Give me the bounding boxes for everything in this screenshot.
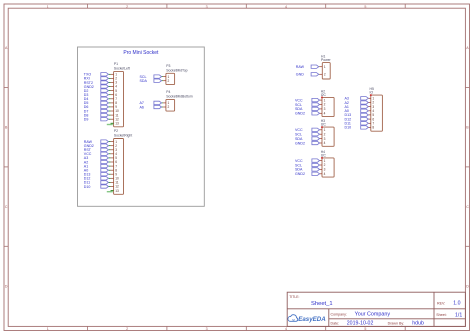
wire net TXO to P1 pin 1 [108, 73, 110, 75]
pin 1 of H2 [319, 98, 326, 102]
net flag D12 [345, 117, 369, 121]
net flag GND2 [84, 85, 109, 89]
wire net D10 to H5 pin 8 [367, 126, 370, 128]
wire net D2 to P1 pin 5 [108, 90, 110, 92]
frame row letters A-D (right) [466, 46, 469, 288]
pin 2 of H2 [319, 103, 326, 107]
net flag D13 [345, 113, 369, 117]
frame column digits 1-5 (top) [47, 5, 367, 9]
svg-text:A6: A6 [140, 105, 144, 109]
wire net D6 to P1 pin 9 [108, 106, 110, 108]
wire net GND2 to H4 pin 4 [318, 173, 321, 175]
pin 2 of P4 [163, 105, 170, 109]
pin 11 of P2 [111, 181, 119, 185]
wire net D12 to H5 pin 6 [367, 118, 370, 120]
svg-text:Sheet_1: Sheet_1 [311, 301, 333, 307]
svg-text:C: C [5, 205, 8, 209]
svg-text:2: 2 [168, 105, 170, 109]
pin 7 of H5 [368, 121, 375, 125]
wire net D3 to P1 pin 6 [108, 94, 110, 96]
net flag RST [84, 148, 109, 152]
svg-text:Pro Mini Socket: Pro Mini Socket [123, 50, 159, 56]
svg-text:3: 3 [324, 168, 326, 172]
svg-text:VCC: VCC [295, 128, 303, 132]
pin 11 of P1 [111, 113, 119, 117]
svg-text:SocketLeft: SocketLeft [114, 66, 130, 70]
pin 6 of P2 [111, 160, 118, 164]
net flag D2 [84, 89, 109, 93]
net flag D3 [84, 93, 109, 97]
pin 4 of H5 [368, 109, 375, 113]
net flag A7 [140, 101, 162, 105]
wire net SDA to P3 pin 2 [162, 80, 163, 82]
svg-text:I2C: I2C [321, 154, 327, 158]
pin 4 of H4 [319, 172, 326, 176]
net flag A3 [345, 97, 369, 101]
wire net D11 to P2 pin 11 [108, 181, 110, 183]
svg-text:4: 4 [324, 172, 326, 176]
wire net SCL to H2 pin 2 [318, 104, 321, 106]
pin 1 of H4 [319, 159, 326, 163]
svg-text:P3: P3 [166, 64, 170, 68]
net flag VCC [295, 98, 320, 102]
frame column boundary ticks (top) [87, 4, 405, 8]
connector P3 (SocketMidTop) [166, 64, 188, 85]
net flag TXO [84, 73, 109, 77]
svg-text:Power: Power [321, 58, 331, 62]
svg-text:D9: D9 [84, 117, 89, 121]
net flag A1 [84, 164, 109, 168]
pin 4 of H3 [319, 141, 326, 145]
pin 1 of P3 [163, 75, 170, 79]
wire net D9 to P1 pin 12 [108, 118, 110, 120]
net flag D4 [84, 97, 109, 101]
wire net GND2 to H3 pin 4 [318, 142, 321, 144]
pin 2 of H5 [368, 101, 375, 105]
wire net RAW to P2 pin 1 [108, 141, 110, 143]
svg-text:3: 3 [324, 137, 326, 141]
net flag A3 [84, 156, 109, 160]
net flag D10 [84, 185, 109, 189]
pin 1 of H1 [319, 65, 326, 69]
wire net GND2 to H2 pin 4 [318, 112, 321, 114]
svg-text:2: 2 [126, 5, 128, 9]
wire net SDA to H3 pin 3 [318, 138, 321, 140]
pin 6 of P1 [111, 93, 118, 97]
net flag RAW [296, 65, 319, 69]
net flag D7 [84, 109, 109, 113]
svg-text:1: 1 [324, 128, 326, 132]
svg-text:TITLE:: TITLE: [289, 295, 299, 299]
svg-text:GND2: GND2 [295, 172, 305, 176]
svg-text:4: 4 [285, 327, 287, 331]
svg-text:3: 3 [324, 107, 326, 111]
wire net SCL to H4 pin 2 [318, 164, 321, 166]
pin-1 origin dot H4 [321, 157, 323, 159]
pin 3 of H3 [319, 137, 326, 141]
pin 9 of P1 [111, 105, 118, 109]
svg-text:D10: D10 [345, 126, 352, 130]
svg-text:C: C [466, 205, 469, 209]
pin 1 of P2 [111, 140, 118, 144]
net flag A0 [345, 109, 369, 113]
connector P1 (SocketLeft) [114, 62, 130, 127]
net flag GND [296, 73, 319, 77]
net flag D12 [84, 177, 109, 181]
net flag GND2 [295, 172, 320, 176]
svg-text:4: 4 [324, 141, 326, 145]
svg-text:REV:: REV: [437, 301, 445, 305]
frame column boundary ticks (bottom) [87, 326, 405, 330]
connector H1 (Power) [321, 55, 331, 79]
svg-text:Company:: Company: [331, 312, 347, 316]
net flag SCL [295, 103, 320, 107]
net flag SCL [140, 75, 162, 79]
svg-text:VCC: VCC [295, 98, 303, 102]
svg-text:2: 2 [324, 73, 326, 77]
pin 3 of P2 [111, 148, 118, 152]
svg-text:5: 5 [364, 5, 366, 9]
wire net VCC to H2 pin 1 [318, 99, 321, 101]
pin 1 of P4 [163, 101, 170, 105]
svg-text:EasyEDA: EasyEDA [298, 316, 326, 323]
connector H3 (I2C) [321, 119, 334, 146]
pin 12 of P2 [111, 185, 119, 189]
svg-text:IO: IO [370, 91, 374, 95]
wire net RAW to H1 pin 1 [318, 66, 321, 68]
wire stub (green) at P2 pin 13 [107, 191, 113, 193]
svg-text:1: 1 [324, 98, 326, 102]
net flag GND2 [295, 141, 320, 145]
net flag VCC [84, 152, 109, 156]
svg-text:P1: P1 [114, 62, 118, 66]
wire net A2 to H5 pin 2 [367, 102, 370, 104]
pin 3 of P1 [111, 81, 118, 85]
pin 1 of P1 [111, 73, 118, 77]
pin-1 origin dot H2 [321, 96, 323, 98]
svg-text:D: D [5, 285, 8, 289]
wire net RST2 to P1 pin 3 [108, 82, 110, 84]
pin 3 of H5 [368, 105, 375, 109]
wire net A1 to H5 pin 3 [367, 106, 370, 108]
svg-text:Date:: Date: [331, 321, 340, 325]
connector H2 (I2C) [321, 90, 334, 117]
svg-text:1: 1 [324, 159, 326, 163]
pin 3 of H2 [319, 107, 326, 111]
wire net RXI to P1 pin 2 [108, 77, 110, 79]
pin 3 of H4 [319, 168, 326, 172]
net flag A1 [345, 105, 369, 109]
pin 8 of P2 [111, 168, 118, 172]
wire net D12 to P2 pin 10 [108, 177, 110, 179]
svg-text:SDA: SDA [295, 137, 303, 141]
svg-text:SDA: SDA [295, 168, 303, 172]
pin 8 of P1 [111, 101, 118, 105]
pin 2 of H3 [319, 132, 326, 136]
pin 1 of H5 [368, 97, 375, 101]
pin 4 of H2 [319, 112, 326, 116]
net flag SCL [295, 163, 320, 167]
wire net D13 to H5 pin 5 [367, 114, 370, 116]
pin 6 of H5 [368, 117, 375, 121]
net flag D11 [345, 122, 369, 126]
svg-text:Sheet:: Sheet: [436, 313, 446, 317]
svg-text:5: 5 [364, 327, 366, 331]
group box Pro Mini Socket [78, 47, 205, 206]
pin 2 of P3 [163, 79, 170, 83]
pin 5 of P2 [111, 156, 118, 160]
net flag D6 [84, 105, 109, 109]
net flag D5 [84, 101, 109, 105]
svg-text:SDA: SDA [140, 79, 148, 83]
frame column digits 1-5 (bottom) [47, 327, 367, 331]
wire net A7 to P4 pin 1 [162, 102, 163, 104]
wire net SCL to P3 pin 1 [162, 76, 163, 78]
net flag VCC [295, 159, 320, 163]
svg-text:GND2: GND2 [295, 141, 305, 145]
net flag D9 [84, 117, 109, 121]
net flag A2 [345, 101, 369, 105]
svg-text:D10: D10 [84, 185, 91, 189]
svg-text:P4: P4 [166, 90, 170, 94]
svg-text:GND2: GND2 [295, 112, 305, 116]
svg-text:2: 2 [324, 103, 326, 107]
net flag A6 [140, 105, 162, 109]
pin-1 origin dot H3 [321, 126, 323, 128]
wire stub (green) at P1 pin 13 [107, 124, 113, 126]
wire net GND2 to P2 pin 2 [108, 145, 110, 147]
net flag VCC [295, 128, 320, 132]
pin 10 of P1 [111, 109, 119, 113]
pin 7 of P1 [111, 97, 118, 101]
frame row letters A-D (left) [5, 46, 8, 288]
svg-text:2: 2 [168, 79, 170, 83]
net flag D8 [84, 113, 109, 117]
wire net D11 to H5 pin 7 [367, 122, 370, 124]
net flag RST2 [84, 81, 109, 85]
svg-text:13: 13 [115, 121, 119, 125]
net flag RXI [84, 77, 109, 81]
svg-text:1.0: 1.0 [453, 301, 460, 307]
svg-text:SCL: SCL [295, 163, 302, 167]
svg-text:SDA: SDA [295, 107, 303, 111]
svg-text:2: 2 [324, 163, 326, 167]
connector P4 (SocketMidBottom) [166, 90, 193, 111]
svg-text:D: D [466, 285, 469, 289]
pin 2 of P1 [111, 77, 118, 81]
connector H4 (I2C) [321, 150, 334, 177]
net flag SDA [140, 79, 162, 83]
net flag SDA [295, 168, 320, 172]
wire net D13 to P2 pin 9 [108, 173, 110, 175]
pin 8 of H5 [368, 126, 375, 130]
svg-text:Drawn By:: Drawn By: [388, 321, 405, 325]
wire net A6 to P4 pin 2 [162, 106, 163, 108]
connector H5 (IO) [370, 87, 383, 131]
wire net D10 to P2 pin 12 [108, 186, 110, 188]
wire net SDA to H2 pin 3 [318, 108, 321, 110]
wire net A0 to P2 pin 8 [108, 169, 110, 171]
pin 13 of P1 [111, 121, 119, 125]
EasyEDA logo [288, 315, 326, 323]
svg-text:VCC: VCC [295, 159, 303, 163]
wire net D5 to P1 pin 8 [108, 102, 110, 104]
wire net GND to H1 pin 2 [318, 73, 321, 75]
net flag A0 [84, 168, 109, 172]
pin 4 of P1 [111, 85, 118, 89]
wire net D7 to P1 pin 10 [108, 110, 110, 112]
net flag D10 [345, 126, 369, 130]
frame row boundary ticks (right) [465, 87, 469, 246]
net flag SCL [295, 133, 320, 137]
wire net GND2 to P1 pin 4 [108, 86, 110, 88]
svg-text:SocketMidTop: SocketMidTop [166, 68, 187, 72]
wire net VCC to H3 pin 1 [318, 129, 321, 131]
pin 1 of H3 [319, 128, 326, 132]
svg-text:3: 3 [206, 327, 208, 331]
svg-text:3: 3 [206, 5, 208, 9]
svg-text:RAW: RAW [296, 65, 305, 69]
pin 2 of H4 [319, 163, 326, 167]
pin 10 of P2 [111, 177, 119, 181]
svg-text:I2C: I2C [321, 123, 327, 127]
svg-text:1: 1 [47, 327, 49, 331]
net flag SDA [295, 137, 320, 141]
svg-text:SCL: SCL [295, 103, 302, 107]
svg-text:GND: GND [296, 73, 304, 77]
svg-text:P2: P2 [114, 129, 118, 133]
title block frame [287, 292, 465, 326]
wire net A3 to P2 pin 5 [108, 157, 110, 159]
net flag GND2 [84, 144, 109, 148]
svg-text:2: 2 [126, 327, 128, 331]
svg-text:8: 8 [372, 126, 374, 130]
wire net A0 to H5 pin 4 [367, 110, 370, 112]
net flag GND2 [295, 112, 320, 116]
wire net A1 to P2 pin 7 [108, 165, 110, 167]
net flag RAW [84, 140, 109, 144]
wire net RST to P2 pin 3 [108, 149, 110, 151]
svg-text:4: 4 [324, 112, 326, 116]
svg-text:SCL: SCL [295, 133, 302, 137]
svg-text:SocketMidBottom: SocketMidBottom [166, 94, 193, 98]
pin 2 of P2 [111, 144, 118, 148]
connector P2 (SocketRight) [114, 129, 133, 194]
svg-text:hdub: hdub [412, 321, 424, 327]
pin 7 of P2 [111, 164, 118, 168]
pin-1 origin dot H5 [370, 94, 372, 96]
svg-text:1/1: 1/1 [455, 312, 462, 318]
wire net A2 to P2 pin 6 [108, 161, 110, 163]
pin 13 of P2 [111, 189, 119, 193]
svg-text:1: 1 [47, 5, 49, 9]
wire net VCC to P2 pin 4 [108, 153, 110, 155]
svg-text:Your Company: Your Company [355, 312, 391, 318]
wire net D4 to P1 pin 7 [108, 98, 110, 100]
pin 5 of H5 [368, 113, 375, 117]
pin 9 of P2 [111, 172, 118, 176]
net flag D13 [84, 173, 109, 177]
svg-text:13: 13 [115, 189, 119, 193]
pin 5 of P1 [111, 89, 118, 93]
svg-text:I2C: I2C [321, 93, 327, 97]
pin 2 of H1 [319, 73, 326, 77]
svg-text:4: 4 [285, 5, 287, 9]
svg-text:2019-10-02: 2019-10-02 [347, 321, 374, 327]
pin 12 of P1 [111, 117, 119, 121]
wire net SCL to H3 pin 2 [318, 133, 321, 135]
wire net VCC to H4 pin 1 [318, 160, 321, 162]
svg-text:1: 1 [324, 65, 326, 69]
pin 4 of P2 [111, 152, 118, 156]
wire net D8 to P1 pin 11 [108, 114, 110, 116]
wire net A3 to H5 pin 1 [367, 97, 370, 99]
net flag SDA [295, 107, 320, 111]
frame row boundary ticks (left) [4, 87, 8, 246]
net flag D11 [84, 181, 109, 185]
net flag A2 [84, 160, 109, 164]
svg-text:SocketRight: SocketRight [114, 134, 132, 138]
svg-text:2: 2 [324, 132, 326, 136]
wire net SDA to H4 pin 3 [318, 168, 321, 170]
